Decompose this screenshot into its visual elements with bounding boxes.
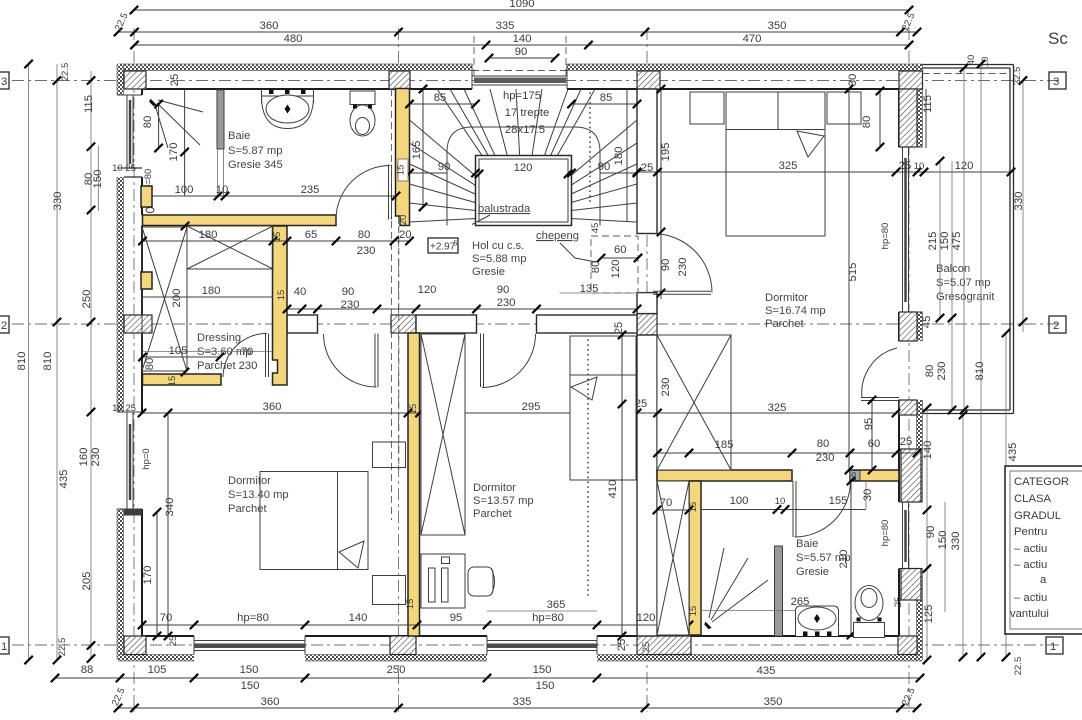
- svg-text:185: 185: [715, 439, 734, 451]
- svg-text:25: 25: [635, 398, 648, 410]
- svg-text:3: 3: [1, 76, 7, 88]
- fixture: WC top-left: [350, 91, 375, 136]
- svg-text:85: 85: [434, 92, 447, 104]
- svg-text:410: 410: [607, 480, 619, 499]
- dim 180 stair right vertical: [613, 89, 627, 221]
- svg-text:235: 235: [301, 184, 320, 196]
- svg-text:30: 30: [847, 74, 859, 87]
- pier hatched right wall above baie window: [901, 449, 921, 502]
- door D6 swing arc: [795, 481, 851, 537]
- svg-text:hp=80: hp=80: [880, 520, 891, 547]
- svg-text:480: 480: [284, 33, 303, 45]
- window W7 right wall (baie, hp=80): [899, 502, 923, 569]
- svg-text:70: 70: [160, 612, 173, 624]
- svg-text:90: 90: [660, 259, 672, 272]
- svg-text:90: 90: [598, 161, 611, 173]
- svg-text:+2.97: +2.97: [430, 242, 456, 253]
- svg-text:140: 140: [922, 441, 934, 460]
- svg-text:160: 160: [78, 448, 90, 467]
- svg-text:295: 295: [522, 401, 541, 413]
- svg-text:chepeng: chepeng: [536, 230, 579, 242]
- wardrobe centre bedroom with X: [421, 334, 465, 535]
- left dim labels rotated: [16, 63, 104, 657]
- dim 80 bedroom window vertical: [861, 87, 884, 151]
- svg-text:120: 120: [610, 260, 622, 279]
- window W6 right wall (bedroom, hp=80): [899, 147, 923, 312]
- svg-text:– actiu: – actiu: [1014, 543, 1047, 555]
- interior wall white: hall south piece left: [287, 315, 318, 333]
- door D5 hall to right bedroom (90) leaf: [653, 234, 712, 295]
- svg-text:45: 45: [590, 223, 601, 234]
- svg-text:80: 80: [144, 358, 156, 371]
- dim row baie 100/10/235: [141, 184, 400, 200]
- svg-text:205: 205: [81, 572, 93, 591]
- svg-text:125: 125: [923, 605, 935, 624]
- svg-text:Gresie: Gresie: [796, 566, 829, 578]
- interior wall white: hall south piece centre: [416, 315, 477, 333]
- yellow pier left wall lower: [141, 272, 152, 289]
- svg-text:180: 180: [202, 285, 221, 297]
- svg-text:80: 80: [142, 116, 154, 129]
- svg-text:80: 80: [861, 116, 873, 129]
- svg-text:Sc: Sc: [1048, 29, 1068, 48]
- svg-text:230: 230: [660, 378, 672, 397]
- svg-text:25: 25: [168, 636, 179, 647]
- svg-text:10 25: 10 25: [112, 163, 136, 174]
- left dim chain lines: [24, 60, 98, 664]
- dim 85 left stair: [405, 92, 479, 108]
- window W5 bottom wall (bedroom centre, hp=80): [487, 636, 597, 655]
- pier hatched stair east wall at axis 2: [637, 314, 657, 336]
- dim row baie north 185/80/60/25: [653, 436, 921, 464]
- svg-text:2: 2: [1, 320, 7, 332]
- svg-text:810: 810: [42, 352, 54, 371]
- exterior wall: right wall body: [899, 64, 924, 660]
- window W4 bottom wall (bedroom left, hp=80): [194, 636, 305, 655]
- door D6 hall to baie (80) leaf: [793, 481, 851, 537]
- svg-text:25: 25: [900, 436, 913, 448]
- pier hatched top wall at stair wall: [389, 71, 410, 89]
- dim 340 bedroom vertical: [164, 409, 176, 640]
- svg-text:hp=175: hp=175: [503, 90, 541, 102]
- room label Dressing: [197, 332, 251, 372]
- svg-text:215: 215: [927, 232, 939, 251]
- dim 85 right stair: [567, 92, 641, 108]
- bottom dim row 88/105/150/250/150/435: [51, 664, 924, 682]
- svg-text:15: 15: [396, 165, 407, 176]
- room label Dormitor right: [765, 292, 826, 330]
- svg-text:1090: 1090: [509, 0, 534, 10]
- pier hatched hall south at stair wall: [391, 315, 416, 333]
- yellow wall Y1 baie south: [143, 215, 337, 226]
- right dim labels rotated: [922, 192, 1025, 676]
- door D3 swing arc: [324, 334, 377, 387]
- stair walking dotted line: [589, 93, 591, 205]
- furniture: bed centre bedroom single: [570, 336, 636, 480]
- fixture: shower screen bottom-right: [775, 546, 783, 636]
- svg-text:15: 15: [405, 599, 416, 610]
- wardrobe dressing top with X: [187, 226, 273, 269]
- svg-text:95: 95: [450, 612, 463, 624]
- wire: axis vertical mid-right wall: [646, 28, 648, 712]
- svg-text:230: 230: [497, 297, 516, 309]
- svg-text:40: 40: [966, 55, 977, 66]
- wire: axis line 2 horizontal middle: [12, 323, 1063, 325]
- dim 60 chepeng: [597, 244, 642, 262]
- svg-text:60: 60: [614, 244, 627, 256]
- svg-text:10: 10: [914, 161, 925, 172]
- pier hatched left wall at axis 2: [124, 315, 152, 333]
- svg-text:515: 515: [847, 263, 859, 282]
- svg-text:– actiu: – actiu: [1014, 592, 1047, 604]
- svg-text:Dormitor: Dormitor: [228, 475, 271, 487]
- svg-text:Gresogranit: Gresogranit: [936, 291, 995, 303]
- svg-text:Dressing: Dressing: [197, 332, 241, 344]
- svg-text:Parchet: Parchet: [765, 318, 804, 330]
- dim 90 left stair: [405, 161, 479, 177]
- svg-text:1: 1: [1, 641, 7, 653]
- room label Baie top-left: [228, 130, 283, 171]
- dim 200 dressing vertical: [171, 222, 189, 376]
- furniture: nightstand top-right west: [690, 92, 724, 124]
- window W-stair in top wall (hp=175): [472, 64, 567, 89]
- svg-text:140: 140: [513, 33, 532, 45]
- svg-text:45: 45: [921, 316, 933, 329]
- svg-text:25: 25: [169, 74, 181, 87]
- label 0 symbol: [146, 208, 154, 213]
- yellow wall Y6 baie north west segment: [657, 470, 792, 481]
- pier hatched top wall at bedroom wall: [637, 71, 660, 89]
- svg-text:40: 40: [294, 286, 307, 298]
- dim 90 right stair: [567, 161, 641, 177]
- door D7 bedroom to balcony leaf: [861, 348, 899, 401]
- svg-text:15: 15: [688, 606, 699, 617]
- pier hatched bottom-right corner: [898, 636, 917, 655]
- svg-text:balustrada: balustrada: [478, 203, 531, 215]
- svg-text:90: 90: [497, 284, 510, 296]
- fixture: WC bottom-right: [854, 586, 885, 638]
- svg-text:135: 135: [580, 283, 599, 295]
- door D2 dressing (70) leaf: [223, 333, 269, 377]
- window projection dashed lines above stair window: [473, 36, 475, 76]
- dim 210 baie vertical rotated: [838, 477, 855, 639]
- marker box 3 right: [1049, 72, 1066, 89]
- svg-text:15: 15: [167, 376, 178, 387]
- svg-text:230: 230: [90, 448, 102, 467]
- svg-text:230: 230: [357, 245, 376, 257]
- dim 170 shower vertical: [168, 89, 189, 196]
- svg-text:CLASA: CLASA: [1014, 493, 1052, 505]
- svg-text:250: 250: [81, 290, 93, 309]
- svg-text:250: 250: [387, 664, 406, 676]
- stair walk boundary rounded: [447, 127, 600, 226]
- svg-text:200: 200: [171, 289, 183, 308]
- svg-text:90: 90: [515, 46, 528, 58]
- sill block left wall below window W3: [124, 509, 142, 516]
- door D4 swing arc: [482, 334, 536, 388]
- furniture: bed bottom-left bedroom: [260, 472, 368, 570]
- svg-text:1: 1: [1050, 641, 1056, 653]
- svg-text:470: 470: [743, 33, 762, 45]
- door D1 baie (80) leaf: [336, 165, 392, 220]
- room label Baie bottom-right: [796, 538, 850, 578]
- fixture: washbasin top-left: [262, 89, 314, 129]
- svg-text:22.5: 22.5: [60, 63, 71, 82]
- svg-text:230: 230: [677, 258, 689, 277]
- wire: axis vertical right wall: [908, 28, 910, 712]
- svg-text:15: 15: [408, 404, 419, 415]
- yellow wall Y4 dressing south: [143, 374, 222, 385]
- dim 100 baie: [701, 495, 866, 514]
- exterior wall: left wall body: [116, 64, 142, 660]
- pier hatched right wall below baie window: [901, 569, 921, 601]
- pier hatched right wall balcony south: [899, 400, 917, 415]
- svg-text:60: 60: [868, 438, 881, 450]
- svg-text:Hol cu c.s.: Hol cu c.s.: [472, 240, 524, 252]
- marker box 2 right: [1049, 316, 1066, 333]
- dim 180 dressing lower: [143, 285, 274, 297]
- svg-text:150: 150: [939, 232, 951, 251]
- svg-text:10 25: 10 25: [112, 403, 136, 414]
- svg-text:435: 435: [1007, 443, 1019, 462]
- svg-text:80: 80: [358, 229, 371, 241]
- dim 90 230 right bedroom door rotated: [660, 258, 689, 277]
- chepeng dashed hatch rectangle: [591, 236, 638, 293]
- svg-text:150: 150: [937, 531, 949, 550]
- wire: centre bed dotted line: [587, 340, 589, 595]
- svg-text:360: 360: [261, 696, 280, 708]
- svg-text:25: 25: [893, 597, 904, 608]
- svg-text:115: 115: [922, 95, 934, 113]
- dim 325 bedroom width row y413: [768, 402, 787, 414]
- svg-text:5: 5: [454, 241, 458, 248]
- svg-text:230: 230: [239, 360, 258, 372]
- pier hatched bottom wall at baie wall: [637, 636, 691, 655]
- pier hatched top-left corner: [124, 71, 146, 89]
- marker box 1 right: [1046, 637, 1063, 654]
- svg-text:120: 120: [418, 284, 437, 296]
- svg-text:195: 195: [660, 143, 672, 162]
- pier hatched bottom-left corner: [124, 636, 146, 655]
- dim 195 bedroom wall vertical: [657, 85, 672, 299]
- svg-text:Dormitor: Dormitor: [473, 482, 516, 494]
- svg-text:10: 10: [216, 184, 229, 196]
- svg-text:80: 80: [817, 438, 830, 450]
- furniture: desk centre bedroom: [421, 554, 465, 608]
- svg-text:80: 80: [590, 261, 602, 274]
- svg-text:Gresie: Gresie: [472, 266, 505, 278]
- yellow wall Y3 dressing east: [273, 226, 288, 385]
- svg-text:150: 150: [92, 170, 104, 189]
- svg-text:150: 150: [240, 664, 259, 676]
- dim 30 baie wall rotated: [862, 481, 874, 509]
- stair opening projection dashed lines in hall: [391, 89, 393, 520]
- svg-text:hp=80: hp=80: [532, 612, 564, 624]
- dim 70 230 dressing door: [239, 346, 258, 372]
- svg-text:hp=80: hp=80: [880, 223, 891, 250]
- door D7 swing arc: [862, 348, 897, 398]
- svg-text:150: 150: [241, 680, 260, 692]
- svg-text:17 trepte: 17 trepte: [505, 107, 550, 119]
- svg-text:15: 15: [688, 502, 699, 513]
- wardrobe right bedroom with X: [657, 335, 731, 470]
- dim 70 closet: [653, 497, 693, 514]
- balcony parapet walls: [923, 65, 1014, 414]
- svg-text:65: 65: [305, 229, 318, 241]
- door frame block on Y7: [850, 471, 860, 481]
- svg-text:GRADUL: GRADUL: [1014, 510, 1061, 522]
- dim 15 partition labels rotated: [405, 599, 416, 610]
- svg-text:20: 20: [399, 229, 412, 241]
- svg-text:95: 95: [863, 418, 875, 431]
- svg-text:120: 120: [514, 162, 533, 174]
- dim 170 left wall vertical: [142, 508, 161, 640]
- svg-text:325: 325: [768, 402, 787, 414]
- svg-text:435: 435: [58, 470, 70, 489]
- svg-text:105: 105: [169, 345, 188, 357]
- wire: hall floor edge line: [560, 292, 650, 294]
- dim 80 230 balcony door rotated: [924, 362, 948, 381]
- svg-text:25: 25: [616, 639, 628, 652]
- level marker +2.975 box: [428, 238, 458, 253]
- svg-text:150: 150: [533, 664, 552, 676]
- dim row y625 70/140/95/120: [138, 612, 693, 629]
- dim row top 480/140/470: [130, 33, 913, 49]
- furniture: nightstand top-right east: [827, 92, 861, 124]
- svg-text:120: 120: [637, 612, 656, 624]
- dim row y172 25/325/25/10/120: [633, 160, 1015, 176]
- svg-text:810: 810: [16, 352, 28, 371]
- svg-text:Gresie 345: Gresie 345: [228, 159, 283, 171]
- marker box 2 left: [0, 316, 9, 333]
- door D3 hall to left bedroom (90) leaf: [324, 334, 379, 388]
- dim 115 balcony rotated: [922, 89, 934, 148]
- svg-text:S=13.40 mp: S=13.40 mp: [228, 489, 289, 501]
- label balustrada with leader: [472, 203, 531, 225]
- yellow wall Y7 baie north east segment: [850, 470, 899, 481]
- room label Dormitor centre: [473, 482, 534, 520]
- dim row y413 360/295: [112, 398, 900, 417]
- svg-text:vantului: vantului: [1010, 608, 1049, 620]
- dim 15 baie west wall rotated x2: [688, 502, 699, 617]
- svg-text:22.5: 22.5: [57, 638, 68, 657]
- svg-text:S=16.74 mp: S=16.74 mp: [765, 305, 826, 317]
- dim 120 balustrade: [475, 162, 572, 178]
- svg-text:100: 100: [730, 495, 749, 507]
- dim row top 1090: [130, 0, 913, 14]
- svg-text:435: 435: [757, 665, 776, 677]
- svg-text:CATEGOR: CATEGOR: [1014, 476, 1069, 488]
- svg-text:Dormitor: Dormitor: [765, 292, 808, 304]
- svg-text:115: 115: [83, 95, 95, 113]
- svg-text:S=5.88 mp: S=5.88 mp: [472, 253, 526, 265]
- svg-text:Baie: Baie: [228, 130, 250, 142]
- svg-text:Parchet: Parchet: [228, 503, 267, 515]
- svg-text:360: 360: [260, 20, 279, 32]
- furniture: chair centre bedroom: [468, 567, 495, 596]
- yellow wall Y8 baie west: [689, 481, 701, 635]
- svg-text:– actiu: – actiu: [1014, 559, 1047, 571]
- stair treads fan: [410, 89, 638, 222]
- dim 365 centre bedroom: [487, 599, 597, 611]
- svg-text:hp=80: hp=80: [237, 612, 269, 624]
- svg-text:Baie: Baie: [796, 538, 818, 550]
- wire: shower tray edge line: [701, 610, 795, 612]
- svg-text:10: 10: [775, 496, 786, 507]
- svg-text:80: 80: [924, 365, 936, 378]
- svg-text:325: 325: [779, 160, 798, 172]
- door D4 hall to centre bedroom (90) leaf: [481, 334, 536, 388]
- svg-text:350: 350: [768, 20, 787, 32]
- fixture: washbasin bottom-right: [796, 606, 839, 636]
- svg-text:155: 155: [829, 495, 848, 507]
- svg-text:S=5.87 mp: S=5.87 mp: [228, 145, 282, 157]
- svg-text:165: 165: [411, 141, 423, 160]
- svg-text:S=5.57 mp: S=5.57 mp: [796, 552, 850, 564]
- svg-text:28x17.5: 28x17.5: [505, 124, 545, 136]
- closet east of centre bedroom with X: [657, 481, 689, 635]
- interior wall white: bedroom east wall lower: [637, 293, 657, 314]
- svg-text:Parchet: Parchet: [473, 508, 512, 520]
- dim 215 150 475 balcony chains rotated: [927, 64, 968, 414]
- wire: axis line A horizontal top: [12, 80, 1063, 82]
- svg-text:hp=0: hp=0: [141, 448, 152, 469]
- pier hatched right wall at axis 2: [899, 312, 917, 341]
- svg-text:a: a: [1040, 574, 1047, 586]
- svg-text:105: 105: [148, 664, 167, 676]
- yellow pier left wall upper: [141, 186, 152, 207]
- stair balustrade: [476, 156, 572, 226]
- svg-text:70: 70: [660, 497, 673, 509]
- svg-text:360: 360: [263, 401, 282, 413]
- svg-text:330: 330: [950, 532, 962, 551]
- svg-text:170: 170: [168, 143, 180, 162]
- marker box 3 left: [0, 72, 9, 89]
- svg-text:22.5: 22.5: [1013, 657, 1024, 676]
- bottom dim row 360/335/350: [110, 686, 921, 712]
- svg-text:230: 230: [816, 452, 835, 464]
- svg-text:100: 100: [175, 184, 194, 196]
- svg-text:15: 15: [276, 290, 287, 301]
- svg-text:230: 230: [341, 299, 360, 311]
- dim 80 shower vertical: [142, 100, 163, 152]
- svg-text:335: 335: [496, 20, 515, 32]
- svg-text:330: 330: [52, 192, 64, 211]
- window W3 left wall (hp=0 french window): [117, 412, 142, 509]
- interior wall white: stair east wall: [637, 89, 657, 636]
- label chepeng with leader: [536, 230, 596, 262]
- exterior wall: bottom wall body: [118, 636, 922, 662]
- pier hatched bottom wall at partition: [390, 636, 416, 655]
- svg-text:170: 170: [142, 566, 154, 585]
- svg-text:90: 90: [438, 161, 451, 173]
- door D5 swing arc: [653, 234, 712, 293]
- svg-text:30: 30: [862, 489, 874, 502]
- dim 95 balcony door pier vertical: [863, 396, 876, 474]
- dim row y241 180/15/65/80/20: [138, 229, 413, 257]
- bottom dim row 150/150: [241, 680, 555, 692]
- furniture: nightstand bottom-left north: [373, 442, 406, 468]
- note text box right side: [1005, 466, 1082, 634]
- svg-text:475: 475: [951, 232, 963, 251]
- pier hatched right wall below corner: [899, 89, 917, 147]
- fixture: shower spray bottom-right: [704, 548, 768, 629]
- svg-text:15: 15: [272, 232, 283, 243]
- svg-text:90: 90: [342, 286, 355, 298]
- svg-text:230: 230: [936, 362, 948, 381]
- window W1 left wall (Baie, hp=80): [117, 95, 142, 177]
- svg-text:85: 85: [600, 92, 613, 104]
